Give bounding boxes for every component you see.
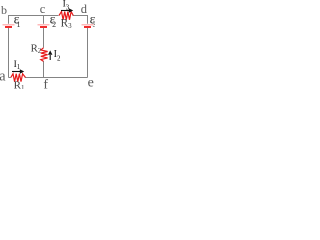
svg-text:R1: R1 (14, 79, 25, 89)
svg-text:ε1: ε1 (14, 13, 21, 30)
svg-text:ε3: ε3 (90, 13, 95, 30)
svg-text:I3: I3 (63, 0, 70, 12)
svg-text:ε2: ε2 (50, 13, 56, 30)
battery EMF2 long plate (38, 24, 50, 25)
svg-text:R2: R2 (31, 42, 42, 55)
wire right vertical lower battery3 to e (87, 28, 89, 78)
battery EMF1 long plate (3, 24, 15, 25)
wire right vertical upper d to battery3 (87, 15, 89, 24)
battery EMF2 short plate (40, 26, 47, 28)
wire left vertical upper b to battery1 (8, 15, 10, 24)
wire middle vertical R2 to f (43, 61, 45, 78)
svg-text:I2: I2 (54, 49, 61, 62)
wire top right R3-d (73, 15, 88, 17)
resistor R2 zigzag (41, 48, 48, 62)
svg-text:R3: R3 (61, 17, 72, 30)
wire bottom a to R1 (9, 77, 11, 79)
current arrow I1 (12, 69, 24, 73)
resistor R3 zigzag (59, 12, 73, 20)
svg-text:e: e (88, 76, 94, 89)
svg-text:d: d (81, 2, 88, 16)
svg-text:b: b (1, 3, 7, 17)
svg-text:I1: I1 (14, 60, 21, 71)
svg-text:f: f (43, 78, 48, 89)
wire top left b-c-R3 (9, 15, 59, 17)
wire bottom R1 to e (25, 77, 88, 79)
battery EMF1 short plate (5, 26, 12, 28)
wire middle vertical battery2 to R2 (43, 28, 45, 48)
svg-text:c: c (40, 2, 46, 16)
battery EMF3 long plate (82, 24, 94, 25)
resistor R1 zigzag (11, 74, 26, 82)
svg-text:a: a (0, 69, 6, 85)
current arrow I2 (48, 50, 52, 60)
battery EMF3 short plate (84, 26, 91, 28)
current arrow I3 (61, 8, 73, 12)
wire left vertical lower battery1 to a (8, 28, 10, 78)
wire middle vertical upper c to battery2 (43, 16, 45, 24)
